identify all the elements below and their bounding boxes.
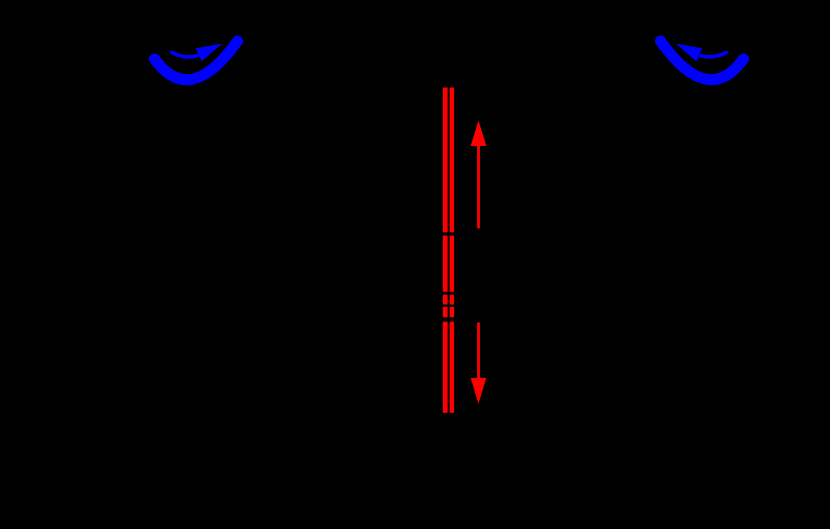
left thick crescent arc (155, 41, 238, 80)
left arrowhead (196, 44, 223, 62)
right thin arrow tail (701, 53, 726, 57)
right arrowhead (676, 44, 703, 62)
red double line segment 3 (short dash) (443, 295, 454, 305)
red double line segment 1 (top long segment) (443, 88, 454, 233)
red double line segment 4 (short dash) (443, 307, 454, 317)
blue rotation arrow left (155, 41, 238, 80)
red up arrow (471, 121, 487, 229)
red double line segment 2 (443, 236, 454, 292)
red down arrow (471, 323, 487, 404)
left thin arrow tail (172, 53, 197, 57)
right thick crescent arc (661, 41, 744, 80)
blue rotation arrow right (mirror) (661, 41, 744, 80)
red double line segment 5 (bottom long segment) (443, 322, 454, 413)
